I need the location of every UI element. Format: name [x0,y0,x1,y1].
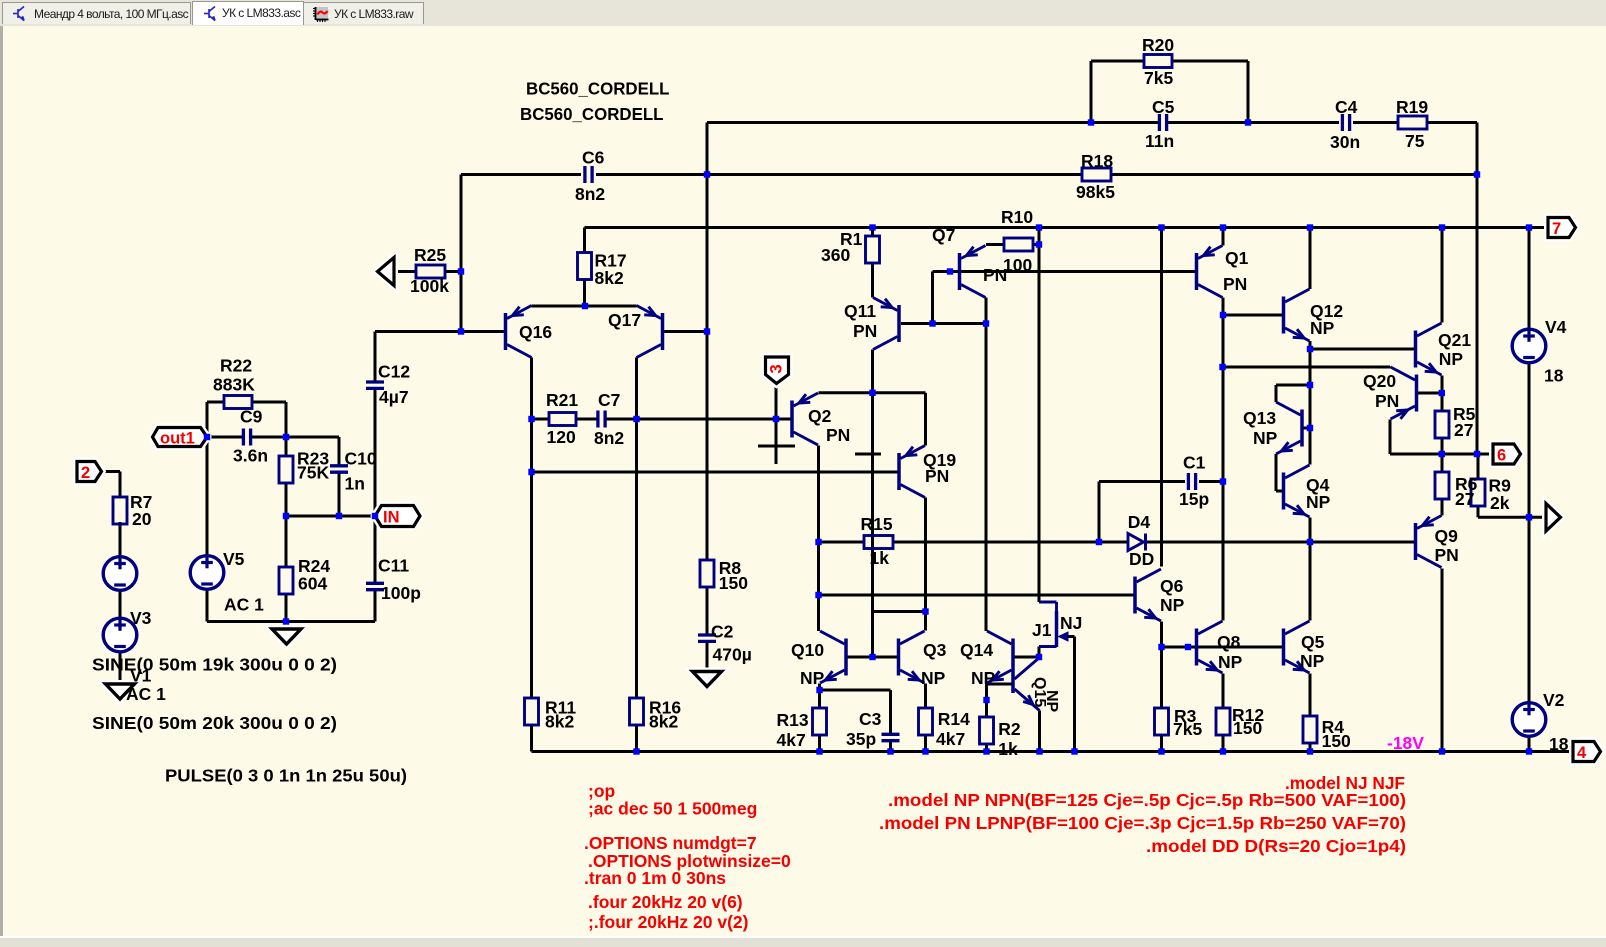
svg-text:V2: V2 [1543,690,1565,710]
wire R15 to D4 [893,541,1128,544]
resistor R21 [549,413,576,426]
type Q8 [1218,652,1243,672]
capacitor C12 [366,382,384,388]
value C4 [1330,132,1360,152]
resistor R4 [1303,716,1317,743]
svg-text:Q8: Q8 [1217,632,1241,652]
wire Q8 Q5 base rail [1162,646,1284,649]
value V1 SINE [92,713,337,733]
svg-text:NP: NP [1310,318,1335,338]
label C1 [1183,452,1206,472]
svg-text:NP: NP [1160,595,1185,615]
value C10 [345,474,365,494]
value R25 [410,276,449,296]
svg-text:18: 18 [1544,366,1564,386]
svg-text:C9: C9 [240,407,263,427]
type Q5 [1300,651,1325,671]
wire R21 left [532,418,550,421]
wire V5 loop bottom [207,620,375,623]
svg-text:150: 150 [719,573,748,593]
type Q10 [800,668,825,688]
junction [1439,390,1445,396]
wire V1 to V3 [119,591,122,618]
wire Q5 collector up [1309,542,1312,621]
svg-text:Q16: Q16 [519,322,552,342]
junction [1158,644,1164,650]
label V4 [1545,317,1567,337]
wire Q16col to y472 [530,419,533,472]
svg-text:27: 27 [1454,420,1473,440]
svg-text:NP: NP [1439,349,1464,369]
junction [887,748,893,754]
label R25 [414,245,446,265]
wire C2 to ground [706,642,709,672]
wire +rail node 7 [585,226,1549,229]
svg-text:.tran 0 1m 0 30ns: .tran 0 1m 0 30ns [584,868,726,888]
junction [1036,748,1042,754]
junction [1088,119,1094,125]
svg-text:35p: 35p [846,729,876,749]
svg-text:-18V: -18V [1387,733,1424,753]
transistor Q5 [1284,621,1310,673]
value R20 [1144,68,1173,88]
junction [1219,364,1225,370]
label Q1 [1225,248,1249,268]
wire V2 bottom [1528,737,1531,752]
junction [633,748,639,754]
resistor R15 [864,536,893,549]
value R17 [595,268,624,288]
value C11 [381,583,421,603]
junction [869,224,875,230]
junction [816,748,822,754]
wire Q20 collector stub [1389,367,1392,368]
label C6 [582,148,605,168]
svg-text:.four 20kHz 20 v(6): .four 20kHz 20 v(6) [588,892,743,912]
label Q5 [1301,632,1325,652]
wire R21 to C7 [576,418,598,421]
svg-text:100: 100 [1003,255,1032,275]
junction [1474,451,1480,457]
wire C7 right to node3 [605,418,776,421]
type Q2 [826,425,850,445]
junction [1071,748,1077,754]
junction [1036,654,1042,660]
wire Q4 emitter down [1309,518,1312,543]
svg-text:Q6: Q6 [1160,576,1184,596]
net flag IN [375,506,420,527]
wire Q7 base branch drop [931,272,934,324]
wire to R16 top [635,419,638,698]
label C12 [378,362,410,382]
svg-text:883K: 883K [213,375,255,395]
net flag 6 [1493,444,1521,465]
type Q9 [1435,545,1459,565]
wire C6 to R18 [596,173,1082,176]
transistor Q7 [960,246,986,298]
wire R1 top [871,228,874,238]
junction [983,748,989,754]
resistor R2 [980,717,994,744]
wire Q1 collector [1222,298,1225,316]
wire Q3 collector up [924,612,927,631]
svg-text:PN: PN [826,425,850,445]
net flag 3 [766,357,789,384]
value R7 [132,509,152,529]
label Q15 [1031,677,1048,707]
wire node C5 left [707,121,1159,124]
transistor Q9 [1416,516,1442,568]
text BC560_CORDELL 1 [526,79,670,99]
wire Q8 emitter to R12 [1222,674,1225,709]
label R9 [1489,476,1512,496]
value C7 [594,428,624,448]
value R8 [719,573,748,593]
junction [283,618,289,624]
wire R1 to Q11 emitter [871,262,874,298]
wire R5 top [1441,393,1444,411]
wire out1 to C9 [207,436,243,439]
value R15 [870,548,890,568]
capacitor C10 [330,466,348,472]
svg-text:DD: DD [1129,549,1154,569]
wire Q13 collector drop [1275,385,1278,402]
label Q13 [1243,408,1276,428]
svg-text:PN: PN [853,321,877,341]
wire Q4 base [1276,490,1284,493]
value C12 [379,387,409,407]
wire R17 bottom [583,280,586,306]
svg-text:8n2: 8n2 [575,184,605,204]
transistor Q17 [637,306,663,358]
directive four v2 [588,912,748,932]
label Q8 [1217,632,1241,652]
transistor Q4 [1284,465,1310,517]
label Q12 [1310,301,1343,321]
value R13 [777,730,806,750]
wire x1039 to J1 drain [1038,245,1041,603]
port arrow left of R25 [378,258,395,286]
junction [1185,644,1191,650]
resistor R18 [1082,168,1111,181]
wire Q13 stack [1309,349,1312,465]
transistor Q11 [873,298,899,350]
wire Q11 base line [901,322,986,325]
wire Q2 collector down [817,446,820,543]
label R7 [130,492,152,512]
svg-text:IN: IN [383,509,400,527]
resistor R8 [700,560,714,587]
label R1 [840,229,863,249]
wire R23 top [285,437,288,456]
wire R22 left [207,401,224,404]
type Q1 [1223,274,1247,294]
label C5 [1152,97,1175,117]
svg-text:R19: R19 [1396,97,1428,117]
junction [869,654,875,660]
svg-text:PN: PN [1375,391,1399,411]
junction [929,320,935,326]
type Q12 [1310,318,1335,338]
value V5 PULSE [165,766,407,786]
wire R3 bottom [1160,735,1163,752]
label R3 [1174,706,1197,726]
wire Q10 emitter to R13 [818,684,821,709]
label Q9 [1435,526,1459,546]
svg-text:C10: C10 [345,449,377,469]
transistor Q3 [899,631,925,683]
svg-text:Q14: Q14 [960,640,993,660]
type Q6 [1160,595,1185,615]
wire Q21 emitter down [1441,376,1444,394]
svg-text:6: 6 [1497,447,1506,465]
svg-text:1k: 1k [998,739,1018,759]
label V5 [223,549,245,569]
wire V3 to ground [119,653,122,685]
value R3 [1173,719,1202,739]
wire Q13 base stub [1304,427,1311,430]
junction [1036,224,1042,230]
directive ac [588,799,757,819]
wire R3 top [1160,647,1163,708]
svg-text:NP: NP [1300,651,1325,671]
value R19 [1405,131,1425,151]
wire x461 down [460,175,463,332]
svg-text:3.6n: 3.6n [233,446,268,466]
value V5 [224,595,264,615]
wire C1 right [1199,480,1223,483]
type Q19 [925,466,949,486]
capacitor C6 [585,166,592,183]
wire to C4 [1248,121,1339,124]
junction [1439,748,1445,754]
value R11 [545,712,574,732]
svg-text:C12: C12 [378,362,410,382]
value C9 [233,446,268,466]
label Q19 [923,450,956,470]
net flag 2 [77,462,102,483]
junction [283,434,289,440]
svg-text:Q10: Q10 [791,640,824,660]
value R23 [297,463,329,483]
wire R23 bottom [285,482,288,516]
wire Q9 collector down [1441,569,1444,752]
svg-text:PULSE(0 3 0 1n 1n 25u 50u): PULSE(0 3 0 1n 1n 25u 50u) [165,766,407,786]
junction [204,434,210,440]
value R16 [649,712,678,732]
wire R24 bottom [285,594,288,622]
wire R9 to arrow [1478,516,1546,519]
resistor R1 [866,236,880,263]
resistor R17 [578,253,592,280]
transistor Q10 [820,631,846,683]
type Q4 [1306,492,1331,512]
svg-text:NP: NP [1306,492,1331,512]
label R15 [861,514,893,534]
wire R25 right [445,270,461,273]
junction [528,416,534,422]
resistor R9 [1471,479,1485,506]
wire C3 top [889,690,892,735]
transistor Q19 [899,446,925,498]
junction [1307,224,1313,230]
wire R20 right lead [1172,60,1248,63]
overlap2 [1529,750,1573,753]
svg-text:AC 1: AC 1 [126,684,166,704]
value C1 [1179,489,1209,509]
svg-text:1k: 1k [870,548,890,568]
junction [1526,224,1532,230]
wire C9 right [251,436,286,439]
junction [1036,241,1042,247]
directive tran [584,868,726,888]
wire R8 to C2 [706,588,709,636]
svg-text:C4: C4 [1335,97,1358,117]
ground C2 [693,672,722,687]
junction [336,513,342,519]
directive model NP [888,790,1406,810]
svg-text:100p: 100p [381,583,421,603]
svg-text:8k2: 8k2 [649,712,678,732]
wire Q14 emitter to R2 [985,684,988,718]
label R16 [649,698,681,718]
wire Q7 emitter to R10 [986,243,1004,246]
label V1 [130,666,152,686]
svg-text:Q2: Q2 [808,406,832,426]
svg-text:NP: NP [1043,690,1060,713]
wire R22 right [252,401,286,404]
label R21 [546,390,578,410]
svg-text:NJ: NJ [1060,613,1082,633]
transistor Q6 [1135,569,1161,621]
svg-text:8k2: 8k2 [595,268,624,288]
label Q7 [932,225,955,245]
label R23 [297,449,329,469]
wire R11 bottom [530,725,533,752]
svg-text:NP: NP [1253,428,1278,448]
value D4 [1129,549,1154,569]
wire C6 left [461,173,581,176]
wire Q17 base [663,330,707,333]
junction [1220,224,1226,230]
wire J1 gate down [1073,637,1076,752]
svg-text:C5: C5 [1152,97,1175,117]
junction [1526,514,1532,520]
wire Q10 Q3 base tie [848,656,898,659]
label V2 [1543,690,1565,710]
svg-text:150: 150 [1322,731,1351,751]
value C3 [846,729,876,749]
svg-text:.model DD D(Rs=20 Cjo=1p4): .model DD D(Rs=20 Cjo=1p4) [1146,836,1406,856]
svg-text:Q21: Q21 [1438,330,1471,350]
svg-text:R21: R21 [546,390,578,410]
wire J1 source down [1038,647,1041,658]
resistor R13 [813,708,827,735]
type Q21 [1439,349,1464,369]
junction [1439,224,1445,230]
junction [773,416,779,422]
wire Q15 base [987,683,1014,686]
wire to C10 corner [286,436,339,439]
net flag out1 [153,428,208,448]
svg-text:15p: 15p [1179,489,1209,509]
wire Q14 base [1015,656,1040,659]
svg-text:Q13: Q13 [1243,408,1276,428]
label R8 [719,558,742,578]
wire Q6 emitter down [1160,622,1163,648]
svg-text:470µ: 470µ [713,645,752,665]
voltage source V2 [1512,703,1546,737]
wire x1223 down [1222,315,1225,482]
svg-text:R14: R14 [938,709,970,729]
value R21 [547,427,576,447]
svg-text:98k5: 98k5 [1076,182,1115,202]
svg-text:BC560_CORDELL: BC560_CORDELL [526,79,670,99]
junction [633,416,639,422]
label C4 [1335,97,1358,117]
svg-text:4µ7: 4µ7 [379,387,409,407]
svg-text:4: 4 [1577,744,1587,762]
svg-text:Q3: Q3 [923,640,947,660]
value V3 SINE [92,655,337,675]
svg-text:V4: V4 [1545,317,1567,337]
type Q11 [853,321,877,341]
svg-text:Q17: Q17 [608,310,641,330]
wire Q20 emitter down [1389,420,1392,455]
svg-text:R18: R18 [1081,151,1113,171]
label Q2 [808,406,832,426]
voltage source V4 [1512,329,1546,363]
label Q21 [1438,330,1471,350]
capacitor C5 [1159,114,1166,131]
diode D4 [1128,534,1146,551]
wire D4 to Q9 base [1146,541,1416,544]
wire -rail node 4 [532,750,1574,753]
wire Q13 emitter down [1275,454,1278,491]
directive model NJ [1285,773,1405,793]
wire R17 top [583,228,586,253]
svg-text:BC560_CORDELL: BC560_CORDELL [520,104,664,124]
label R5 [1453,404,1476,424]
wire plus mark arm [758,445,795,448]
label R19 [1396,97,1428,117]
transistor Q21 [1416,323,1442,375]
svg-text:Q20: Q20 [1363,371,1396,391]
directive plotwinsize [588,851,791,871]
svg-text:NP: NP [921,668,946,688]
wire Q11 collector down [871,350,874,658]
wire Q21 base [1310,348,1416,351]
svg-text:30n: 30n [1330,132,1360,152]
voltage source V1 [103,557,137,591]
junction [1220,312,1226,318]
wire to Q20 collector [1223,366,1391,369]
junction [1307,539,1313,545]
junction [704,171,710,177]
value R1 [821,245,850,265]
text BC560_CORDELL 2 [520,104,664,124]
svg-text:R22: R22 [220,356,252,376]
text -18V [1387,733,1424,753]
wire flag3 down [775,386,778,419]
svg-text:18: 18 [1549,734,1569,754]
label J1 [1032,620,1052,640]
wire vertical x707 [706,123,709,560]
directive four v6 [588,892,743,912]
label C7 [598,390,620,410]
junction [983,320,989,326]
wire C3 bottom [889,741,892,752]
